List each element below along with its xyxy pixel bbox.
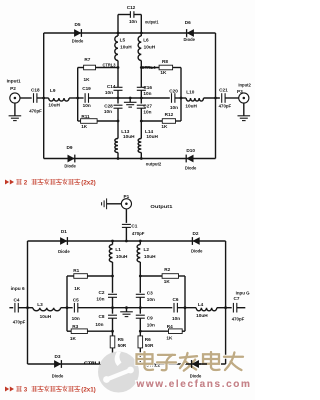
svg-text:10uH: 10uH: [116, 254, 128, 259]
svg-text:CTRL1: CTRL1: [84, 361, 101, 366]
svg-text:10n: 10n: [143, 91, 151, 96]
svg-text:C6: C6: [173, 297, 179, 302]
svg-text:C28: C28: [104, 103, 113, 108]
svg-text:Diode: Diode: [190, 373, 202, 378]
svg-text:C20: C20: [169, 89, 178, 94]
svg-text:L5: L5: [120, 38, 126, 43]
svg-text:10uH: 10uH: [185, 103, 197, 108]
svg-text:10n: 10n: [147, 323, 155, 328]
svg-text:Diode: Diode: [191, 249, 203, 254]
svg-text:10uH: 10uH: [144, 45, 156, 50]
svg-text:50R: 50R: [118, 343, 127, 348]
svg-text:C19: C19: [82, 86, 91, 91]
svg-text:470pF: 470pF: [219, 103, 232, 108]
svg-text:D1: D1: [61, 229, 67, 234]
svg-text:C8: C8: [99, 314, 105, 319]
svg-text:10n: 10n: [143, 110, 151, 115]
svg-text:1K: 1K: [81, 124, 88, 129]
svg-text:Diode: Diode: [185, 165, 197, 170]
svg-text:R7: R7: [84, 57, 90, 62]
svg-text:10uH: 10uH: [196, 313, 208, 318]
svg-text:10uH: 10uH: [146, 134, 158, 139]
svg-text:L2: L2: [144, 247, 150, 252]
svg-text:470pF: 470pF: [29, 108, 42, 113]
svg-text:P1: P1: [124, 194, 130, 199]
svg-text:D2: D2: [193, 231, 199, 236]
svg-text:P3: P3: [237, 89, 243, 94]
svg-text:10uH: 10uH: [120, 45, 132, 50]
svg-text:10n: 10n: [147, 297, 155, 302]
svg-text:1K: 1K: [160, 70, 167, 75]
svg-text:L9: L9: [50, 88, 56, 93]
svg-text:www.elecfans.com: www.elecfans.com: [136, 379, 252, 390]
svg-text:C12: C12: [127, 5, 136, 10]
svg-text:3: 3: [24, 387, 28, 394]
svg-text:10n: 10n: [95, 322, 103, 327]
svg-text:L1: L1: [115, 247, 121, 252]
svg-text:L6: L6: [143, 38, 149, 43]
svg-text:1K: 1K: [161, 124, 168, 129]
svg-text:L3: L3: [37, 302, 43, 307]
svg-text:R5: R5: [118, 337, 124, 342]
svg-text:10uH: 10uH: [144, 254, 156, 259]
svg-text:(2x1): (2x1): [81, 387, 95, 394]
svg-text:Output1: Output1: [150, 204, 172, 209]
svg-text:1K: 1K: [164, 279, 171, 284]
svg-text:C2: C2: [99, 290, 105, 295]
svg-text:10n: 10n: [104, 109, 112, 114]
svg-text:10n: 10n: [72, 316, 80, 321]
svg-text:inpu G: inpu G: [236, 291, 250, 296]
svg-text:R6: R6: [145, 337, 151, 342]
svg-text:R8: R8: [162, 59, 168, 64]
svg-text:Diode: Diode: [183, 37, 195, 42]
svg-text:C16: C16: [143, 85, 152, 90]
svg-text:output1: output1: [145, 20, 159, 25]
svg-text:1K: 1K: [166, 336, 173, 341]
svg-text:C1: C1: [131, 224, 137, 229]
svg-text:Diode: Diode: [52, 373, 64, 378]
svg-text:Diode: Diode: [58, 249, 70, 254]
svg-text:CTRL4: CTRL4: [142, 65, 156, 70]
svg-text:10uH: 10uH: [48, 103, 60, 108]
svg-text:C4: C4: [14, 297, 20, 302]
svg-text:Input2: Input2: [238, 83, 251, 88]
svg-text:C3: C3: [147, 291, 153, 296]
svg-text:(2x2): (2x2): [81, 180, 95, 187]
svg-text:C21: C21: [219, 87, 228, 92]
svg-text:R1: R1: [73, 268, 79, 273]
svg-text:R12: R12: [165, 112, 174, 117]
svg-text:2: 2: [24, 180, 28, 187]
svg-text:output2: output2: [146, 162, 162, 167]
svg-text:50R: 50R: [145, 343, 154, 348]
svg-text:10uH: 10uH: [40, 314, 52, 319]
svg-text:D6: D6: [185, 20, 191, 25]
svg-text:C14: C14: [107, 84, 116, 89]
svg-text:10n: 10n: [170, 105, 178, 110]
svg-text:P2: P2: [10, 86, 16, 91]
svg-text:10n: 10n: [96, 297, 104, 302]
svg-text:1K: 1K: [74, 286, 81, 291]
svg-text:C27: C27: [143, 104, 152, 109]
svg-text:10n: 10n: [172, 316, 180, 321]
svg-text:C9: C9: [147, 316, 153, 321]
svg-text:10n: 10n: [83, 103, 91, 108]
svg-text:D9: D9: [67, 145, 73, 150]
svg-text:D3: D3: [55, 354, 61, 359]
svg-text:10uH: 10uH: [123, 134, 135, 139]
svg-text:1K: 1K: [70, 336, 77, 341]
svg-text:D10: D10: [186, 148, 195, 153]
svg-text:C5: C5: [73, 297, 79, 302]
svg-text:inpu 6: inpu 6: [11, 286, 25, 291]
svg-text:10n: 10n: [105, 90, 113, 95]
svg-text:470pF: 470pF: [132, 231, 145, 236]
svg-text:C7: C7: [234, 296, 240, 301]
svg-text:R4: R4: [167, 324, 173, 329]
svg-text:R3: R3: [72, 324, 78, 329]
svg-text:R11: R11: [81, 114, 90, 119]
svg-text:L10: L10: [186, 90, 194, 95]
svg-text:10n: 10n: [129, 19, 137, 24]
svg-text:Diode: Diode: [72, 39, 84, 44]
svg-text:D5: D5: [75, 22, 81, 27]
svg-text:Diode: Diode: [64, 164, 76, 169]
svg-text:470pF: 470pF: [232, 316, 245, 321]
svg-text:R2: R2: [164, 267, 170, 272]
svg-text:1K: 1K: [84, 77, 91, 82]
svg-text:470pF: 470pF: [13, 320, 26, 325]
svg-text:L4: L4: [198, 302, 204, 307]
svg-text:C18: C18: [31, 87, 40, 92]
svg-text:Input1: Input1: [7, 78, 21, 83]
svg-text:CTRL3: CTRL3: [103, 62, 116, 67]
